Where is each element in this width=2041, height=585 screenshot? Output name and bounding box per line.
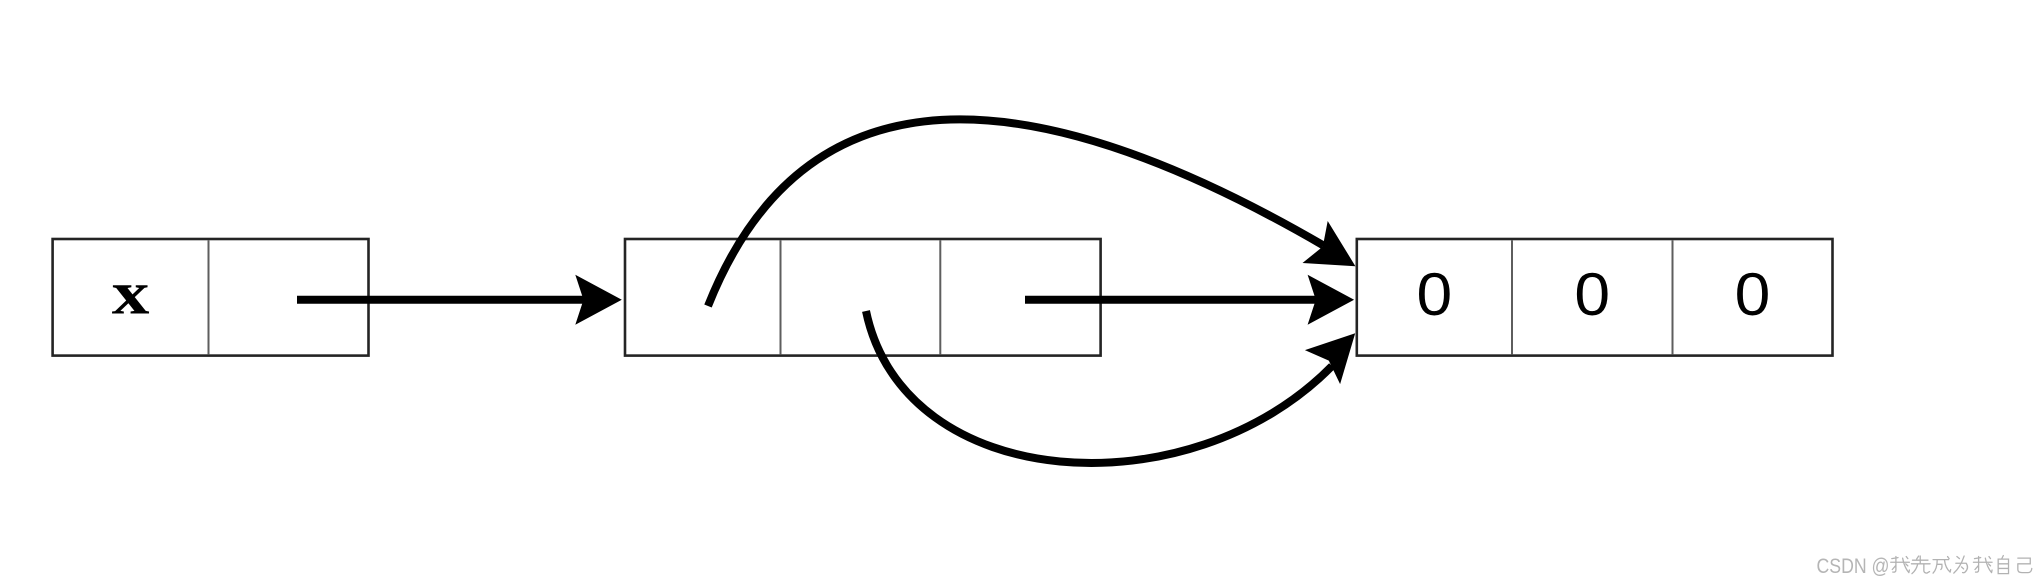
glyph zi4	[1998, 556, 2008, 574]
divider of node X	[208, 240, 210, 354]
svg-text:0: 0	[1574, 261, 1610, 328]
divider 2 of node B	[939, 240, 941, 354]
glyph xian1	[1911, 556, 1930, 574]
glyph wo3 (2nd)	[1973, 557, 1992, 573]
glyph wo3	[1891, 557, 1910, 573]
node X (pointer variable box, 2 cells)	[53, 239, 369, 356]
svg-text:x: x	[112, 260, 150, 327]
divider 1 of node B	[780, 240, 782, 354]
arrow A1 (x to node B)	[297, 275, 622, 325]
glyph wei4	[1954, 556, 1968, 573]
watermark CJK glyphs	[1891, 556, 2032, 574]
glyph cheng2	[1933, 557, 1951, 574]
arrow A4 (node B cell 2 bottom arc to node C)	[866, 311, 1355, 463]
divider 2 of node C	[1672, 240, 1674, 354]
watermark CSDN	[1817, 555, 1890, 578]
svg-text:CSDN @: CSDN @	[1817, 555, 1890, 578]
node B (middle list node, 3 cells)	[625, 239, 1101, 356]
node C (right list node, 3 cells)	[1357, 239, 1833, 356]
glyph ji3	[2018, 558, 2032, 572]
svg-text:0: 0	[1735, 261, 1771, 328]
svg-text:0: 0	[1417, 261, 1453, 328]
arrow A2 (node B cell 3 to node C)	[1025, 275, 1354, 325]
divider 1 of node C	[1511, 240, 1513, 354]
arrow A3 (node B cell 1 top arc to node C)	[708, 119, 1355, 306]
